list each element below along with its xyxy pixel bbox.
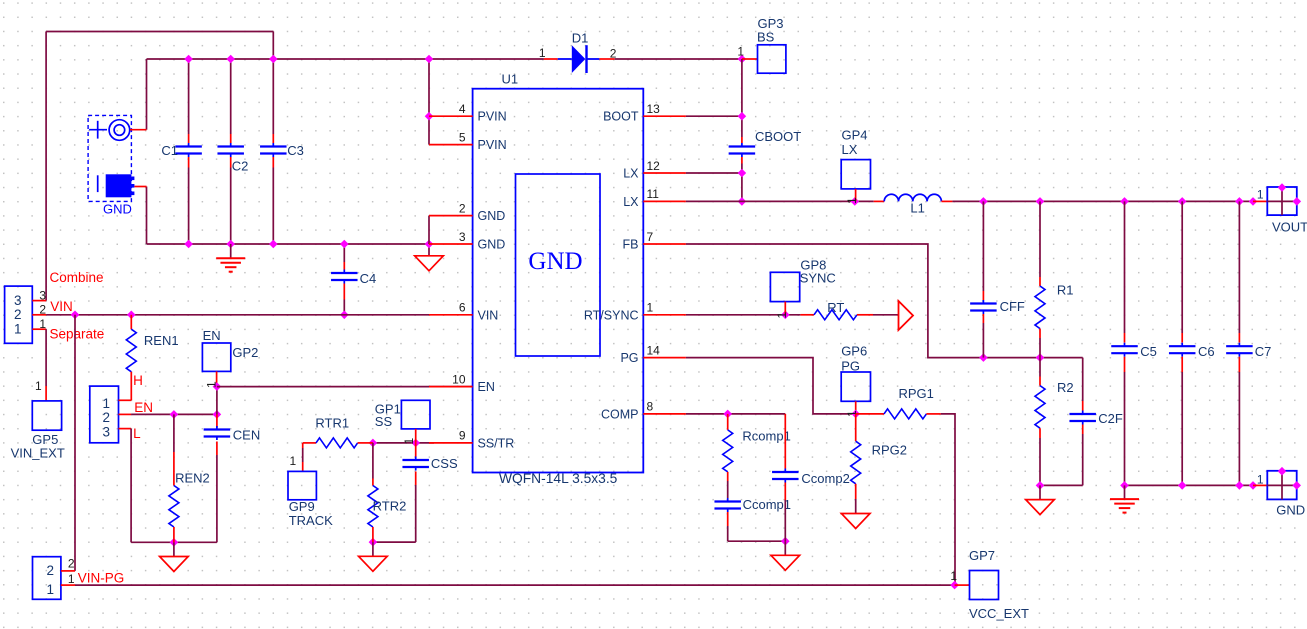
test point GP6 pin stub xyxy=(855,401,857,414)
svg-text:1: 1 xyxy=(845,197,859,204)
svg-text:D1: D1 xyxy=(572,31,589,46)
svg-text:EN: EN xyxy=(203,328,221,343)
svg-text:VIN_EXT: VIN_EXT xyxy=(11,446,65,461)
wire Combine left vertical xyxy=(45,32,47,301)
svg-text:PG: PG xyxy=(620,351,638,365)
svg-text:EN: EN xyxy=(134,400,153,415)
wire GND pin2 vertical xyxy=(428,216,430,244)
svg-text:C1: C1 xyxy=(161,143,178,158)
junction VOUT rail C5 xyxy=(1120,197,1129,206)
test point GP4 body xyxy=(841,160,870,189)
U1 pin 14 PG stub xyxy=(643,357,686,359)
resistor RPG1 xyxy=(884,409,926,419)
svg-text:C5: C5 xyxy=(1140,344,1157,359)
junction GP3 xyxy=(738,55,747,64)
svg-text:1: 1 xyxy=(1257,187,1264,201)
capacitor C3 xyxy=(272,59,274,134)
svg-text:GP2: GP2 xyxy=(232,345,258,360)
svg-text:CSS: CSS xyxy=(431,456,458,471)
test point GP9 body xyxy=(288,471,316,499)
test point GP2 pin stub xyxy=(216,371,218,386)
svg-text:EN: EN xyxy=(478,380,495,394)
svg-text:RT: RT xyxy=(827,300,844,315)
power ground under RPG2 xyxy=(841,514,870,529)
junction Rcomp1 top xyxy=(723,410,732,419)
wire battery minus vertical xyxy=(146,187,148,245)
wire ground stub under REN2 rail xyxy=(173,542,175,556)
svg-text:3: 3 xyxy=(39,288,46,302)
svg-text:2: 2 xyxy=(39,303,46,317)
svg-text:BOOT: BOOT xyxy=(603,110,639,124)
U1 pin 2 GND stub xyxy=(429,215,473,217)
svg-text:C6: C6 xyxy=(1198,344,1215,359)
capacitor C6 xyxy=(1181,201,1183,333)
svg-text:1: 1 xyxy=(737,45,744,59)
wire BOOT net vertical xyxy=(741,59,743,137)
wire Ccomp1 bottom to junction xyxy=(728,540,786,542)
wire LX rail xyxy=(686,200,874,202)
wire Combine top horizontal xyxy=(46,31,273,33)
svg-text:H: H xyxy=(133,373,143,388)
junction VOUT rail CFF xyxy=(979,197,988,206)
svg-text:L1: L1 xyxy=(910,201,924,216)
junction VOUT rail C7 xyxy=(1235,197,1244,206)
capacitor C2 xyxy=(230,59,232,134)
capacitor C4 xyxy=(343,244,345,262)
svg-text:C7: C7 xyxy=(1255,344,1272,359)
junction C3 bottom xyxy=(269,240,278,249)
test point GP4 pin stub xyxy=(855,189,857,202)
svg-text:2: 2 xyxy=(14,307,22,322)
svg-text:GP7: GP7 xyxy=(969,548,995,563)
wire bottom right rail xyxy=(1125,484,1254,486)
resistor RPG2 xyxy=(855,414,857,441)
svg-text:3: 3 xyxy=(459,230,466,244)
svg-text:Ccomp1: Ccomp1 xyxy=(743,497,791,512)
svg-text:8: 8 xyxy=(647,400,654,414)
svg-text:C2F: C2F xyxy=(1098,411,1123,426)
wire GP2/EN vertical xyxy=(216,387,218,415)
resistor REN2 xyxy=(173,414,175,452)
svg-text:13: 13 xyxy=(647,102,661,116)
svg-text:GND: GND xyxy=(478,238,506,252)
svg-text:2: 2 xyxy=(68,557,75,571)
wire diode to GP3 xyxy=(615,58,742,60)
wire Combine right vertical to VIN rail xyxy=(272,32,274,60)
junction R2 bottom xyxy=(1036,481,1045,490)
resistor RTR1 xyxy=(303,442,316,444)
junction GP2 pin xyxy=(213,382,222,391)
test point GP7 pin stub xyxy=(955,584,970,586)
svg-text:GP6: GP6 xyxy=(841,344,867,359)
wire CSS bottom to RTR2 xyxy=(373,541,416,543)
svg-text:Combine: Combine xyxy=(50,270,104,285)
wire RPG1 to GP7 xyxy=(941,414,955,585)
U1 pin 12 LX stub xyxy=(643,172,686,174)
test point GP1 pin stub xyxy=(415,429,417,443)
svg-text:VIN-PG: VIN-PG xyxy=(78,570,125,585)
J1 pin3 stub xyxy=(32,300,46,302)
wire L net vertical xyxy=(130,429,132,543)
junction C4 top xyxy=(340,240,349,249)
junction BOOT xyxy=(738,112,747,121)
U1 pin 3 GND stub xyxy=(429,243,473,245)
power ground under GND pins xyxy=(415,256,444,271)
diode D1 xyxy=(558,45,600,73)
wire earth stub under C5 xyxy=(1124,485,1126,499)
junction VOUT rail C6 xyxy=(1178,197,1187,206)
junction FB row CFF xyxy=(979,353,988,362)
capacitor Ccomp1 xyxy=(727,497,729,499)
inductor L1 xyxy=(884,194,941,201)
connector VOUT body xyxy=(1267,187,1298,215)
wire VIN-PG left vertical xyxy=(74,315,76,571)
junction C4 bottom xyxy=(340,311,349,320)
svg-text:1: 1 xyxy=(35,379,42,393)
svg-text:5: 5 xyxy=(459,130,466,144)
svg-text:2: 2 xyxy=(46,563,54,578)
svg-text:1: 1 xyxy=(1257,473,1264,487)
svg-text:RTR2: RTR2 xyxy=(373,499,407,514)
J2 pin3 stub xyxy=(119,428,132,430)
test point GP1 body xyxy=(401,400,430,429)
svg-text:COMP: COMP xyxy=(601,407,639,421)
svg-text:GND: GND xyxy=(478,209,506,223)
U1 pin 13 BOOT stub xyxy=(643,115,686,117)
U1 pin 4 PVIN stub xyxy=(429,115,473,117)
svg-text:BS: BS xyxy=(757,30,775,45)
resistor RTR2 xyxy=(372,443,374,479)
junction BR rail C6 xyxy=(1178,481,1187,490)
resistor R2 xyxy=(1039,358,1041,377)
svg-text:1: 1 xyxy=(14,321,22,336)
VOUT pin top xyxy=(1278,183,1287,192)
junction FB row R1/R2 xyxy=(1036,353,1045,362)
wire RT to off-page xyxy=(873,314,899,316)
svg-text:TRACK: TRACK xyxy=(289,513,333,528)
svg-text:1: 1 xyxy=(775,312,789,319)
junction GP8 pin xyxy=(781,311,790,320)
svg-text:CEN: CEN xyxy=(233,427,260,442)
resistor RT right stub xyxy=(857,314,873,316)
svg-text:3: 3 xyxy=(102,424,110,439)
svg-text:1: 1 xyxy=(68,572,75,586)
J3 pin1 stub xyxy=(61,584,75,586)
wire VIN top rail left xyxy=(147,58,544,60)
wire battery plus vertical xyxy=(146,59,148,130)
connector J2 (1/2/3) body xyxy=(90,386,119,443)
wire Separate vertical to GP5 xyxy=(45,329,47,386)
svg-text:1: 1 xyxy=(39,317,46,331)
off-page connector RT right arrow xyxy=(899,301,914,330)
junction SS row at CSS xyxy=(411,439,420,448)
svg-text:LX: LX xyxy=(623,195,639,209)
svg-text:PVIN: PVIN xyxy=(478,138,507,152)
capacitor CEN xyxy=(216,414,218,427)
junction LX rail at GP4 xyxy=(851,197,860,206)
wire GND rail xyxy=(147,243,430,245)
test point GP8 body xyxy=(770,272,799,301)
junction VOUT stub xyxy=(1249,197,1258,206)
U1 inner GND box xyxy=(516,174,601,356)
GND pin right xyxy=(1292,481,1301,490)
test point GP7 body xyxy=(970,571,999,600)
svg-text:GP9: GP9 xyxy=(289,499,315,514)
capacitor CBOOT xyxy=(741,137,743,143)
wire CEN bottom corner xyxy=(216,541,218,543)
wire ground rail left xyxy=(131,541,217,543)
capacitor CSS xyxy=(415,443,417,458)
wire PG net from pin14 xyxy=(686,358,856,414)
wire LX pin12 horizontal xyxy=(686,172,742,174)
svg-text:1: 1 xyxy=(539,46,546,60)
svg-text:L: L xyxy=(133,426,141,441)
power ground under REN2 xyxy=(160,557,189,572)
resistor RT xyxy=(814,310,857,320)
junction RTR2 bottom xyxy=(369,538,378,547)
junction LX12 xyxy=(738,169,747,178)
svg-text:1: 1 xyxy=(647,301,654,315)
junction GP6 pin xyxy=(851,410,860,419)
battery minus pin stub xyxy=(135,186,147,188)
junction GND stub xyxy=(1249,481,1258,490)
wire ground stub under RTR2 xyxy=(372,542,374,556)
junction EN row at REN2 xyxy=(170,410,179,419)
U1 pin 7 FB stub xyxy=(643,243,686,245)
svg-text:3: 3 xyxy=(14,293,22,308)
J3 pin2 stub xyxy=(61,570,75,572)
wire VOUT rail xyxy=(952,200,1253,202)
U1 pin 11 LX stub xyxy=(643,200,686,202)
U1 pin 8 COMP stub xyxy=(643,413,686,415)
wire VIN row xyxy=(46,314,429,316)
battery/source BT1 dashed outline xyxy=(88,115,131,201)
connector J3 (2/1) body xyxy=(33,557,61,600)
svg-text:6: 6 xyxy=(459,301,466,315)
battery plus sign xyxy=(89,121,107,139)
svg-text:RPG2: RPG2 xyxy=(872,442,907,457)
svg-text:RTR1: RTR1 xyxy=(315,415,349,430)
svg-text:9: 9 xyxy=(459,429,466,443)
resistor RT left stub xyxy=(800,314,814,316)
VOUT pin right xyxy=(1293,197,1302,206)
svg-text:RPG1: RPG1 xyxy=(899,386,934,401)
svg-text:11: 11 xyxy=(647,187,660,201)
svg-text:RT/SYNC: RT/SYNC xyxy=(584,308,639,322)
svg-text:REN1: REN1 xyxy=(144,333,179,348)
resistor RPG1 left stub xyxy=(856,413,884,415)
connector VOUT pin stub xyxy=(1253,200,1267,202)
junction LX rail at CBOOT xyxy=(738,197,747,206)
wire ground stub under comp xyxy=(784,541,786,555)
wire R2 bottom to C2F bottom xyxy=(1040,484,1083,486)
svg-text:WQFN-14L 3.5x3.5: WQFN-14L 3.5x3.5 xyxy=(499,471,618,486)
diode D1 cathode stub xyxy=(599,58,614,60)
junction SS row at RTR2 xyxy=(369,439,378,448)
svg-text:1: 1 xyxy=(46,582,54,597)
svg-text:LX: LX xyxy=(623,167,639,181)
battery plus terminal circles xyxy=(109,120,130,141)
junction C1 bottom xyxy=(184,240,193,249)
svg-text:Ccomp2: Ccomp2 xyxy=(801,471,849,486)
svg-text:VOUT: VOUT xyxy=(1272,220,1307,235)
wire anode rail to diode xyxy=(544,58,558,60)
svg-text:SYNC: SYNC xyxy=(800,271,836,286)
ground earth under C5 xyxy=(1110,499,1139,512)
junction PVIN pin4 xyxy=(425,112,434,121)
test point GP3 body xyxy=(758,45,786,73)
junction BR rail C7 xyxy=(1235,481,1244,490)
junction VIN row at REN1 xyxy=(127,311,136,320)
test point GP3 pin stub xyxy=(742,58,758,60)
svg-text:VCC_EXT: VCC_EXT xyxy=(969,606,1029,621)
wire earth stub under C2 xyxy=(230,244,232,258)
wire stub to power ground under GND pins xyxy=(428,244,430,256)
test point GP5 body xyxy=(32,401,61,430)
wire COMP row xyxy=(686,413,785,415)
battery plus pin stub xyxy=(130,129,147,131)
svg-text:10: 10 xyxy=(452,372,466,386)
svg-text:R2: R2 xyxy=(1057,380,1074,395)
capacitor C1 xyxy=(188,59,190,134)
junction ground rail at REN2 xyxy=(170,538,179,547)
wire RT/SYNC row xyxy=(686,314,801,316)
svg-text:GND: GND xyxy=(1276,502,1305,517)
svg-text:GND: GND xyxy=(103,202,132,217)
svg-text:VIN: VIN xyxy=(478,308,499,322)
svg-text:Separate: Separate xyxy=(50,327,105,342)
resistor Rcomp1 xyxy=(727,414,729,430)
J1 pin1 stub xyxy=(32,328,46,330)
svg-text:1: 1 xyxy=(102,396,110,411)
connector J1 (3/2/1) body xyxy=(5,286,33,343)
junction BR rail C5 xyxy=(1120,481,1129,490)
battery minus terminal square xyxy=(106,174,135,197)
svg-text:Rcomp1: Rcomp1 xyxy=(742,428,790,443)
svg-text:C3: C3 xyxy=(287,143,304,158)
test point GP8 pin stub xyxy=(784,302,786,315)
U1 pin 5 PVIN stub xyxy=(429,144,473,146)
inductor L1 right stub xyxy=(941,200,952,202)
svg-text:CBOOT: CBOOT xyxy=(755,129,801,144)
junction VOUT rail R1 xyxy=(1036,197,1045,206)
svg-text:C4: C4 xyxy=(360,271,377,286)
svg-text:1: 1 xyxy=(950,569,957,583)
junction C2 top xyxy=(226,55,235,64)
junction VIN row at x75 xyxy=(71,311,80,320)
power ground under R2 xyxy=(1026,500,1055,515)
svg-text:C2: C2 xyxy=(232,159,249,174)
capacitor C5 xyxy=(1124,201,1126,333)
svg-text:GND: GND xyxy=(528,248,582,275)
wire EN row to pin10 xyxy=(217,386,473,388)
J2 pin2 stub xyxy=(119,413,132,415)
inductor L1 left stub xyxy=(874,200,885,202)
junction C3 top xyxy=(269,55,278,64)
svg-text:14: 14 xyxy=(647,343,661,357)
wire ground stub under R2 xyxy=(1039,485,1041,499)
resistor R1 xyxy=(1039,201,1041,277)
wire RT/SS row xyxy=(373,442,416,444)
svg-text:R1: R1 xyxy=(1057,283,1074,298)
junction GP7 pin xyxy=(950,581,959,590)
U1 pin 10 EN stub xyxy=(429,386,473,388)
wire PVIN vertical xyxy=(428,59,430,145)
connector GND pin stub xyxy=(1253,484,1267,486)
junction C2 bottom/earth xyxy=(226,240,235,249)
svg-text:12: 12 xyxy=(647,159,661,173)
junction C1 top xyxy=(184,55,193,64)
test point GP6 body xyxy=(841,372,870,401)
J1 pin2 stub xyxy=(32,314,46,316)
svg-text:REN2: REN2 xyxy=(175,470,210,485)
power ground under comp network xyxy=(771,555,800,570)
svg-text:2: 2 xyxy=(102,410,110,425)
capacitor Ccomp2 xyxy=(784,414,786,469)
test point GP2 body xyxy=(202,343,230,371)
U1 pin 1 RT/SYNC stub xyxy=(643,314,686,316)
resistor REN1 xyxy=(130,315,132,329)
battery minus sign xyxy=(97,175,99,192)
wire VIN-PG long horizontal xyxy=(75,584,955,586)
svg-text:PVIN: PVIN xyxy=(478,110,507,124)
svg-text:GP4: GP4 xyxy=(842,128,868,143)
svg-text:7: 7 xyxy=(647,230,654,244)
wire BOOT pin13 horizontal xyxy=(686,115,742,117)
junction VIN rail above PVIN xyxy=(425,55,434,64)
svg-text:CFF: CFF xyxy=(1000,299,1025,314)
wire EN row xyxy=(131,413,217,415)
power ground under RTR2 xyxy=(359,556,388,571)
svg-text:PG: PG xyxy=(841,358,860,373)
svg-text:SS: SS xyxy=(375,414,393,429)
svg-text:VIN: VIN xyxy=(50,299,73,314)
connector GND body xyxy=(1267,471,1298,500)
op-amp U1 body xyxy=(473,89,644,473)
svg-text:1: 1 xyxy=(290,454,297,468)
svg-text:1: 1 xyxy=(402,438,416,445)
svg-text:1: 1 xyxy=(205,381,219,388)
U1 pin 9 SS/TR stub xyxy=(429,442,473,444)
svg-text:U1: U1 xyxy=(502,72,519,87)
svg-text:SS/TR: SS/TR xyxy=(478,436,515,450)
U1 pin 6 VIN stub xyxy=(429,314,473,316)
wire FB net xyxy=(686,244,1083,358)
resistor RPG1 right stub xyxy=(926,413,940,415)
svg-text:2: 2 xyxy=(459,201,466,215)
J2 pin1 stub xyxy=(119,399,132,401)
wire GP9 vertical xyxy=(302,443,304,448)
junction EN row at CEN xyxy=(213,410,222,419)
junction comp ground xyxy=(781,537,790,546)
junction GND rail at pin3 xyxy=(425,240,434,249)
capacitor C7 xyxy=(1238,201,1240,333)
svg-text:LX: LX xyxy=(842,142,858,157)
capacitor C2F xyxy=(1082,358,1084,401)
svg-text:4: 4 xyxy=(459,102,466,116)
capacitor CFF xyxy=(982,201,984,291)
ground earth under C2 xyxy=(216,258,245,272)
GND pin top xyxy=(1278,467,1287,476)
svg-text:FB: FB xyxy=(623,238,639,252)
